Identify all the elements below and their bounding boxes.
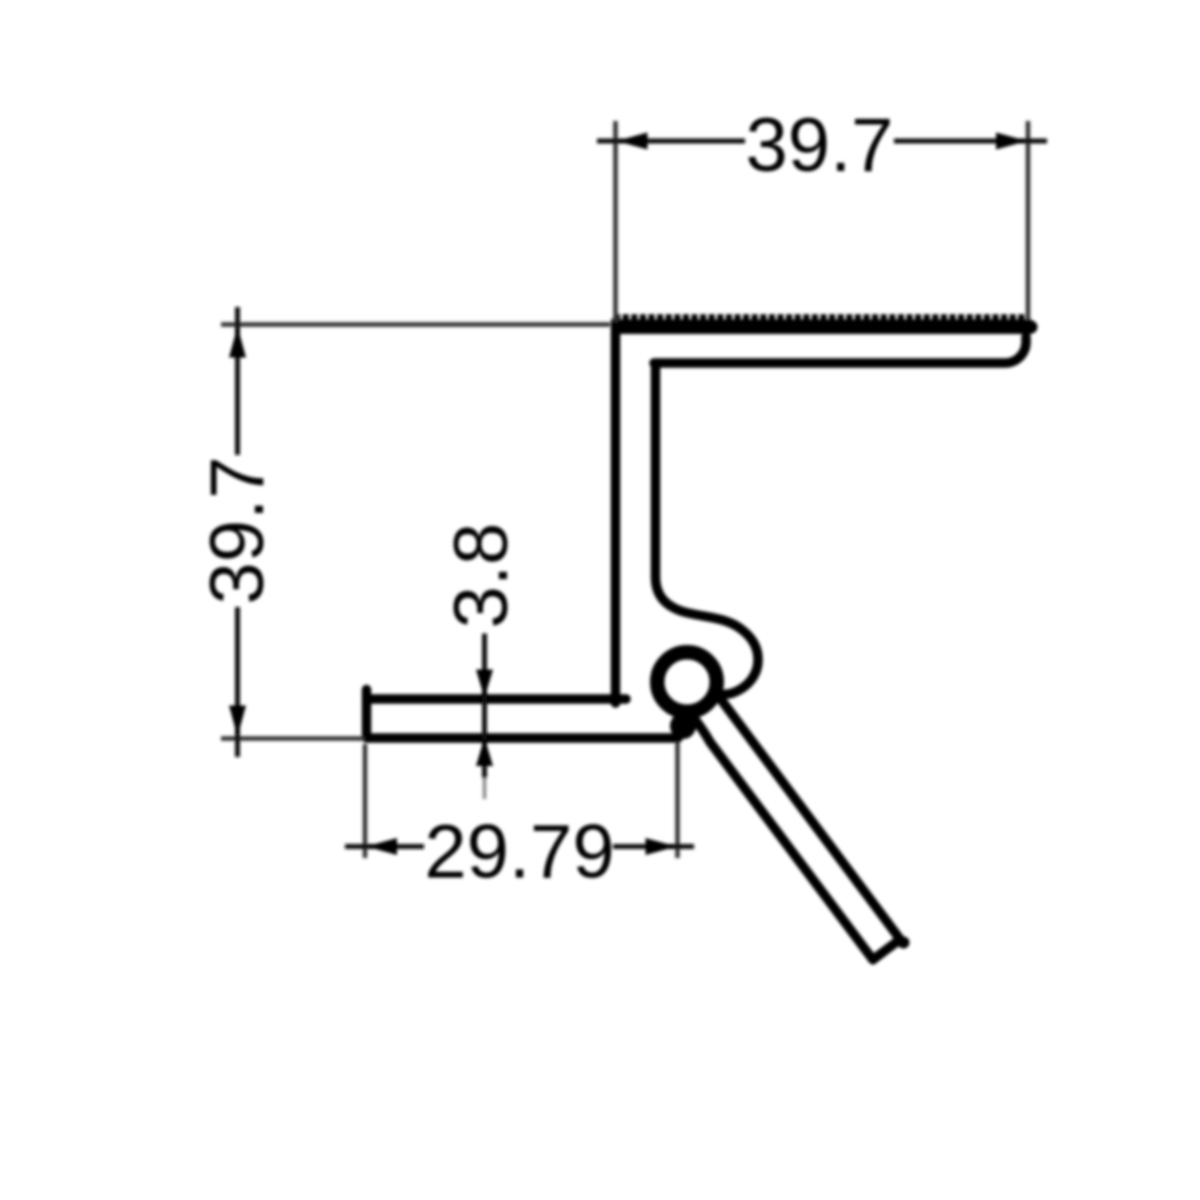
bottom flange channel [367,699,679,738]
top flange serrated plate [611,320,1032,335]
ball to flange junction blob [670,713,696,739]
bar end nub [898,937,910,949]
29.79 dimension line right segment [613,844,694,849]
bar lower edge [690,713,873,960]
arrow left 39.7 up [229,327,246,358]
arrow 3.8 up [476,738,493,767]
arrow top 39.7 left [617,133,648,150]
knurl teeth row [614,314,1030,320]
bar end cap [873,939,900,959]
left 39.7 dimension line lower segment [235,607,240,757]
extension line top of left 39.7 dim [221,322,610,327]
arrow 3.8 down [476,670,493,699]
left 39.7 dimension line upper segment [235,307,240,455]
extension line right of top 39.7 dim [1026,121,1031,320]
arrow 29.79 right [646,838,677,855]
3.8 dimension line fading tail [483,778,487,799]
bottom flange cap overshoot [362,690,372,700]
top 39.7 dimension line right segment [894,139,1047,144]
web right edge with hook hood and bar upper edge [656,366,901,939]
web left edge [611,322,621,703]
29.79 dimension line left segment [345,844,424,849]
extension line bottom of left 39.7 dim [221,736,364,741]
svg-text:29.79: 29.79 [424,810,614,895]
extension line left of 29.79 dim [363,744,368,858]
ball knob [657,652,717,712]
top flange right end round [1025,321,1038,334]
top 39.7 dimension line left segment [597,139,745,144]
extension line right of 29.79 dim [675,742,680,858]
svg-text:39.7: 39.7 [746,103,894,188]
svg-text:39.7: 39.7 [195,457,280,605]
extension line left of top 39.7 dim [613,121,618,322]
arrow 29.79 left [366,838,397,855]
3.8 dimension line [482,634,487,779]
svg-text:3.8: 3.8 [439,523,524,629]
top flange bottom edge with end curl [654,337,1026,363]
arrow left 39.7 down [229,706,246,737]
arrow top 39.7 right [996,133,1027,150]
